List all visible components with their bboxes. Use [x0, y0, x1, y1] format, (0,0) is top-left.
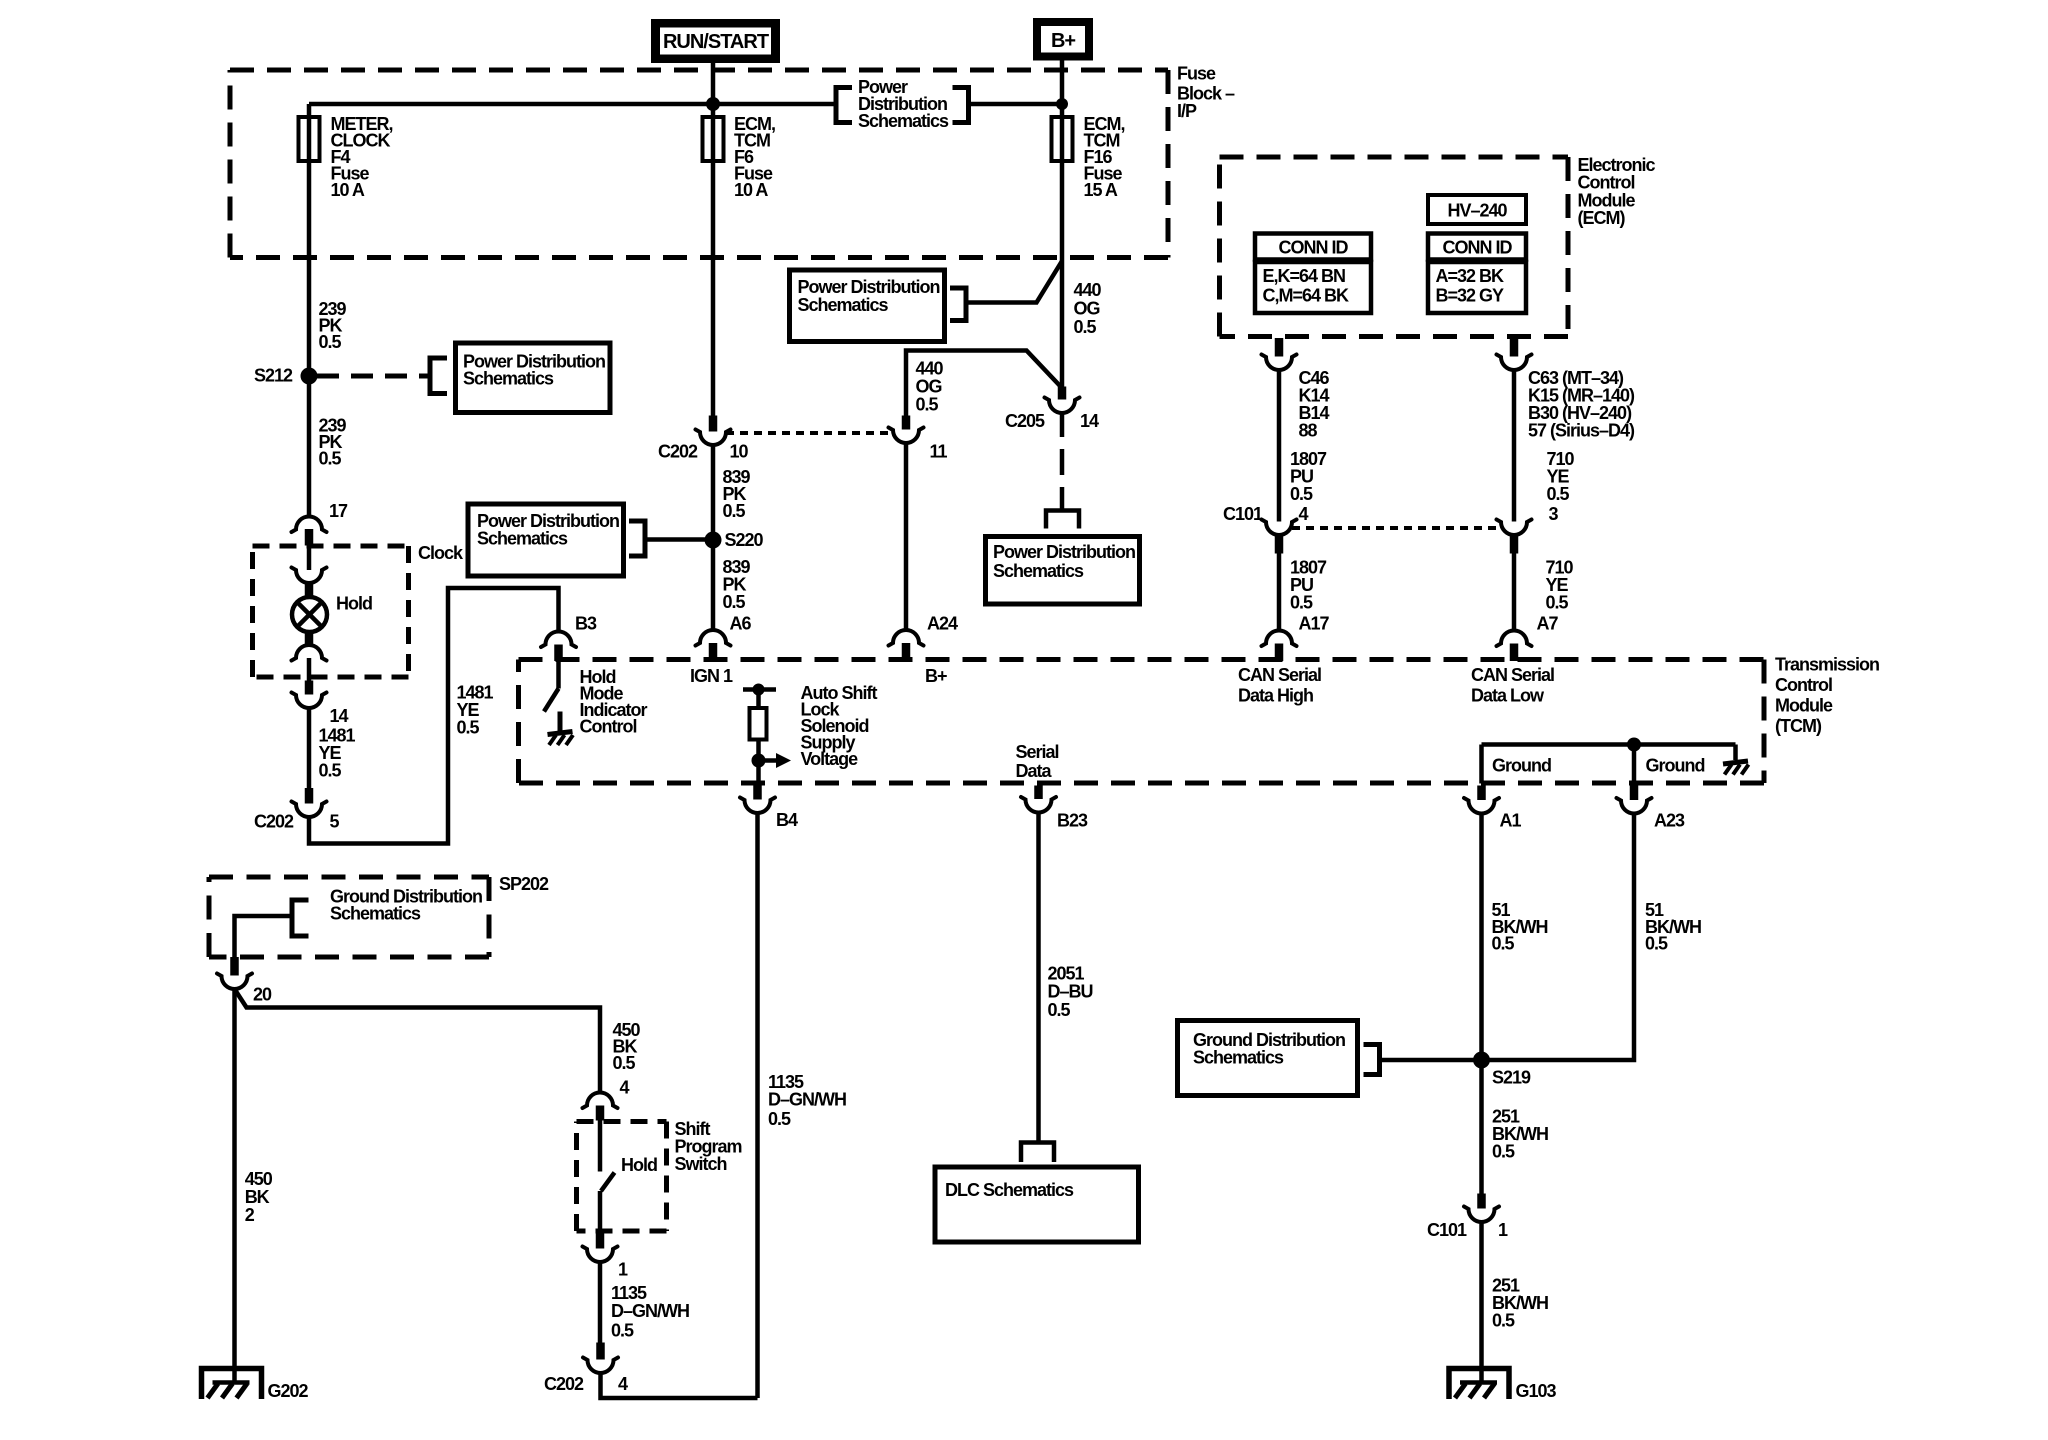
connector C101 pin 4 [1223, 504, 1309, 554]
wire label 239 PK 0.5 (below S212) [319, 416, 347, 469]
wire label 239 PK 0.5 (above S212) [319, 299, 347, 352]
svg-text:0.5: 0.5 [611, 1321, 634, 1341]
svg-text:Hold: Hold [621, 1155, 657, 1175]
lamp Hold indicator [292, 594, 372, 633]
svg-text:S212: S212 [254, 366, 293, 386]
svg-text:1: 1 [618, 1260, 628, 1280]
connector clock lamp top [292, 568, 327, 598]
svg-text:0.5: 0.5 [457, 718, 480, 738]
wire label 450 BK 0.5 [613, 1020, 641, 1073]
node S212 [254, 366, 318, 386]
svg-text:0.5: 0.5 [1492, 1142, 1515, 1162]
svg-text:Switch: Switch [675, 1154, 727, 1174]
power symbol B+ [1033, 18, 1093, 61]
svg-text:C205: C205 [1005, 411, 1045, 431]
svg-text:57 (Sirius–D4): 57 (Sirius–D4) [1528, 421, 1635, 441]
wire 14 to C202-5 [307, 708, 312, 788]
fuse block I/P dashed box [230, 70, 1168, 258]
svg-text:0.5: 0.5 [1492, 934, 1515, 954]
connector pin A23 [1617, 786, 1686, 831]
pin label Hold Mode Indicator Control [580, 667, 648, 737]
svg-text:14: 14 [1080, 411, 1099, 431]
clock dashed box [253, 546, 409, 677]
wire B23 serial data [1036, 813, 1041, 1143]
svg-text:Schematics: Schematics [477, 529, 568, 549]
svg-text:(TCM): (TCM) [1775, 716, 1822, 736]
connector ECM pin C46 [1262, 338, 1297, 370]
table CONN ID left [1255, 234, 1371, 314]
svg-text:OG: OG [1074, 299, 1100, 319]
power symbol RUN/START [651, 19, 780, 63]
svg-text:10 A: 10 A [331, 180, 365, 200]
TCM internal ground bus [1482, 738, 1736, 784]
box Power Distribution Schematics (C205) [986, 537, 1140, 605]
svg-text:0.5: 0.5 [1048, 1000, 1071, 1020]
connector clock lamp bottom [292, 632, 327, 661]
svg-text:Power Distribution: Power Distribution [993, 542, 1135, 562]
svg-text:C101: C101 [1223, 504, 1263, 524]
svg-text:0.5: 0.5 [1492, 1311, 1515, 1331]
wire label 1481 YE 0.5 (B3 leg) [457, 683, 494, 738]
wire label 1807 PU 0.5 (lower) [1290, 558, 1327, 613]
table CONN ID right [1428, 234, 1526, 314]
connector pin 1 (shift switch) [583, 1233, 629, 1280]
svg-text:CONN ID: CONN ID [1443, 238, 1513, 258]
svg-text:Data: Data [1016, 761, 1053, 781]
svg-text:A17: A17 [1299, 614, 1330, 634]
svg-text:G202: G202 [268, 1381, 309, 1401]
wire C202-4 to B4 wire [601, 1373, 758, 1398]
box DLC Schematics [935, 1167, 1139, 1242]
label Electronic Control Module (ECM) [1578, 155, 1656, 228]
wire bracket to S220 [645, 537, 705, 542]
svg-text:0.5: 0.5 [319, 332, 342, 352]
wire C205 dashed drop [1060, 413, 1065, 437]
svg-text:S219: S219 [1492, 1068, 1531, 1088]
svg-text:E,K=64 BN: E,K=64 BN [1263, 266, 1346, 286]
wire label 440 OG 0.5 (11 leg) [916, 359, 944, 415]
node junction at B+ bus [1056, 98, 1068, 110]
wire 11 to A24 [904, 443, 909, 631]
wire C202-5 to B3 (1481 YE) [309, 588, 559, 844]
pin label CAN Serial Data Low [1471, 665, 1554, 706]
node S219 [1473, 1052, 1531, 1088]
ground hold mode control [548, 712, 574, 746]
connector pin 4 (shift switch) [583, 1078, 630, 1121]
connector C205 pin 14 [1005, 387, 1099, 432]
svg-text:CAN Serial: CAN Serial [1471, 665, 1554, 685]
svg-text:1135: 1135 [611, 1283, 647, 1303]
svg-text:440: 440 [1074, 280, 1102, 300]
svg-text:3: 3 [1549, 504, 1559, 524]
connector pin B23 [1021, 786, 1088, 831]
svg-text:C202: C202 [254, 812, 294, 832]
module ECM dashed box [1220, 157, 1569, 337]
wire label 51 BK/WH 0.5 (A1) [1492, 900, 1548, 954]
svg-text:A1: A1 [1500, 811, 1522, 831]
ground G103 [1449, 1369, 1557, 1402]
node S220 [705, 530, 764, 550]
wire 20 branch to shift switch [235, 989, 601, 1093]
off-page connector Power Distribution Schematics (S220) [468, 504, 645, 576]
wire bracket to S219 [1380, 1058, 1482, 1063]
wire C101-4 to A17 [1277, 554, 1282, 631]
wire top bus right [969, 102, 1063, 107]
svg-text:5: 5 [330, 812, 340, 832]
connector pin A7 [1497, 614, 1559, 662]
svg-text:B=32 GY: B=32 GY [1436, 286, 1505, 306]
svg-text:B3: B3 [575, 614, 597, 634]
connector C202 pin 5 [254, 788, 340, 832]
svg-text:Control: Control [580, 717, 637, 737]
svg-text:A24: A24 [927, 614, 958, 634]
svg-text:10: 10 [730, 442, 749, 462]
connector pin 14 (clock) [292, 681, 349, 727]
svg-text:D–BU: D–BU [1048, 982, 1093, 1002]
wire label 1481 YE 0.5 (clock to C202) [319, 726, 356, 781]
connector pin A6 [696, 614, 752, 661]
wire ECM TCM F16 fuse column / B+ column [1060, 104, 1065, 387]
connector pin 17 (clock) [292, 501, 349, 546]
svg-text:14: 14 [330, 706, 349, 726]
svg-text:S220: S220 [725, 530, 764, 550]
wire B+ drop [1060, 61, 1065, 105]
svg-text:Hold: Hold [336, 594, 372, 614]
svg-text:IGN 1: IGN 1 [690, 666, 733, 686]
fuse F16 [1052, 114, 1125, 200]
connector pin A24 [889, 614, 959, 661]
svg-text:0.5: 0.5 [1547, 484, 1570, 504]
module TCM dashed box [519, 660, 1765, 784]
svg-text:Schematics: Schematics [463, 369, 554, 389]
connector C202 pin 10 [658, 416, 749, 462]
svg-text:0.5: 0.5 [1290, 593, 1313, 613]
wire dotted C101 4 to 3 [1292, 526, 1501, 530]
pin label CAN Serial Data High [1238, 665, 1321, 706]
switch shift program dashed box [577, 1122, 667, 1232]
svg-text:0.5: 0.5 [916, 395, 939, 415]
label Fuse Block - I/P [1177, 64, 1235, 122]
wire label 450 BK 2 [245, 1169, 273, 1225]
wire label 1135 D-GN/WH 0.5 (B4) [768, 1072, 846, 1129]
svg-text:Fuse: Fuse [1177, 64, 1216, 84]
wire label 1135 D-GN/WH 0.5 (switch) [611, 1283, 689, 1341]
svg-text:Module: Module [1775, 696, 1833, 716]
svg-text:Control: Control [1775, 675, 1832, 695]
svg-text:4: 4 [1299, 504, 1309, 524]
svg-text:88: 88 [1299, 421, 1318, 441]
svg-text:A7: A7 [1537, 614, 1559, 634]
wire label 251 BK/WH 0.5 (lower) [1492, 1276, 1548, 1331]
svg-text:Ground: Ground [1646, 756, 1705, 776]
svg-text:C101: C101 [1427, 1220, 1467, 1240]
svg-text:I/P: I/P [1177, 101, 1197, 121]
ground TCM internal chassis [1723, 761, 1748, 764]
wire label 710 YE 0.5 (upper) [1547, 449, 1575, 504]
svg-text:G103: G103 [1516, 1381, 1557, 1401]
svg-text:Voltage: Voltage [801, 749, 859, 769]
wire C202-10 to A6 [711, 445, 716, 631]
svg-text:Control: Control [1578, 173, 1635, 193]
wire dotted C202-10 to 11 [726, 431, 893, 435]
svg-text:Ground: Ground [1492, 756, 1551, 776]
wire 440 OG horizontal to connector 11 [906, 351, 1062, 416]
svg-text:C,M=64 BK: C,M=64 BK [1263, 286, 1350, 306]
svg-text:Serial: Serial [1016, 742, 1059, 762]
label Transmission Control Module (TCM) [1775, 655, 1879, 737]
wire label 1807 PU 0.5 (upper) [1290, 449, 1327, 504]
svg-text:BK: BK [245, 1187, 270, 1207]
wire RUN/START drop [711, 63, 716, 104]
svg-text:440: 440 [916, 359, 944, 379]
fuse F4 [299, 114, 393, 200]
wire label 51 BK/WH 0.5 (A23) [1645, 900, 1701, 954]
svg-text:Data Low: Data Low [1471, 686, 1545, 706]
wire label 440 OG 0.5 (B+ leg) [1074, 280, 1102, 337]
wire C101-3 to A7 [1512, 554, 1517, 631]
wire top bus left [309, 102, 836, 107]
svg-text:0.5: 0.5 [613, 1053, 636, 1073]
svg-text:11: 11 [930, 442, 948, 462]
wire 20 to G202 450 BK 2 [232, 989, 237, 1383]
svg-text:0.5: 0.5 [768, 1109, 791, 1129]
switch hold contact [600, 1121, 657, 1234]
svg-text:A=32 BK: A=32 BK [1436, 266, 1505, 286]
wire label 839 PK 0.5 (below S220) [723, 557, 751, 612]
svg-text:0.5: 0.5 [723, 592, 746, 612]
svg-text:Transmission: Transmission [1775, 655, 1879, 675]
pin label Serial Data [1016, 742, 1059, 781]
svg-text:D–GN/WH: D–GN/WH [611, 1301, 689, 1321]
off-page connector Power Distribution Schematics (S212) [430, 343, 610, 413]
svg-text:B4: B4 [776, 810, 798, 830]
svg-text:0.5: 0.5 [319, 449, 342, 469]
svg-text:20: 20 [253, 985, 272, 1005]
wire clock internal bottom [307, 658, 312, 681]
wire ECM TCM F6 fuse column [711, 104, 716, 416]
connector C101 pin 1 [1427, 1194, 1508, 1241]
svg-text:2: 2 [245, 1205, 255, 1225]
connector pin 11 [889, 416, 948, 462]
svg-text:15 A: 15 A [1084, 180, 1118, 200]
svg-text:0.5: 0.5 [319, 761, 342, 781]
wire clock internal top [307, 546, 312, 571]
connect-to fork (DLC) [1021, 1143, 1054, 1163]
connector pin A17 [1262, 614, 1330, 662]
wire pin1 to C202-4 [598, 1262, 603, 1343]
svg-text:CONN ID: CONN ID [1279, 238, 1349, 258]
node junction at RUN/START bus [706, 97, 720, 111]
wire label 839 PK 0.5 (above S220) [723, 467, 751, 521]
splice SP202 dashed box [209, 877, 489, 957]
svg-text:A23: A23 [1654, 811, 1685, 831]
wire B4 1135 D-GN/WH [755, 813, 760, 1398]
svg-text:Data High: Data High [1238, 686, 1313, 706]
off-page connector Power Distribution Schematics (top) [836, 77, 969, 131]
wire C63 to C101-3 [1512, 370, 1517, 522]
pin list C63 K15 B30 57 [1528, 368, 1635, 441]
wire A1 to S219 to C101-1 [1479, 814, 1484, 1194]
svg-text:A6: A6 [730, 614, 752, 634]
svg-text:0.5: 0.5 [1645, 934, 1668, 954]
svg-text:Schematics: Schematics [330, 904, 421, 924]
svg-text:D–GN/WH: D–GN/WH [768, 1090, 846, 1110]
svg-text:Clock: Clock [418, 543, 464, 563]
solenoid auto shift lock supply [743, 684, 791, 787]
wire dashed S212 to power distribution [317, 374, 430, 379]
wire label 710 YE 0.5 (lower) [1546, 558, 1574, 613]
svg-text:RUN/START: RUN/START [663, 31, 769, 53]
svg-text:1: 1 [1498, 1220, 1508, 1240]
fuse F6 [703, 114, 776, 200]
pin list C46 K14 B14 88 [1299, 368, 1330, 441]
svg-text:10 A: 10 A [734, 180, 768, 200]
svg-text:Schematics: Schematics [1193, 1048, 1284, 1068]
ground G202 [202, 1369, 309, 1402]
off-page connector Power Distribution Schematics (440 OG) [790, 270, 967, 342]
svg-text:C202: C202 [658, 442, 698, 462]
wire METER CLOCK fuse column [307, 104, 312, 516]
label Auto Shift Lock Solenoid Supply Voltage [801, 683, 878, 769]
svg-text:4: 4 [618, 1374, 628, 1394]
wire label 251 BK/WH 0.5 (upper) [1492, 1107, 1548, 1162]
svg-text:0.5: 0.5 [1074, 317, 1097, 337]
svg-text:0.5: 0.5 [1546, 593, 1569, 613]
svg-text:Schematics: Schematics [858, 111, 949, 131]
svg-text:B23: B23 [1057, 811, 1088, 831]
svg-text:DLC Schematics: DLC Schematics [945, 1180, 1074, 1200]
off-page connector Ground Distribution Schematics (S219) [1178, 1021, 1380, 1096]
svg-text:0.5: 0.5 [723, 501, 746, 521]
svg-text:OG: OG [916, 377, 942, 397]
svg-text:0.5: 0.5 [1290, 484, 1313, 504]
svg-text:2051: 2051 [1048, 964, 1085, 984]
connector C101 pin 3 [1497, 504, 1559, 554]
svg-text:C202: C202 [544, 1374, 584, 1394]
connector pin 20 [217, 957, 272, 1005]
wire SP202 internal [235, 916, 293, 957]
wire C46 to C101-4 [1277, 370, 1282, 522]
svg-text:B+: B+ [925, 666, 947, 686]
svg-text:4: 4 [620, 1078, 630, 1098]
svg-text:(ECM): (ECM) [1578, 208, 1626, 228]
connector C202 pin 4 [544, 1343, 628, 1395]
svg-text:Schematics: Schematics [993, 561, 1084, 581]
box HV-240 [1428, 195, 1526, 224]
connector ECM pin C63 [1497, 338, 1532, 370]
wire 440 OG diagonal to power distribution [969, 261, 1063, 303]
svg-text:17: 17 [329, 501, 348, 521]
svg-text:450: 450 [245, 1169, 273, 1189]
svg-text:B+: B+ [1051, 30, 1075, 52]
connector pin A1 [1464, 786, 1521, 831]
svg-text:SP202: SP202 [499, 874, 549, 894]
svg-text:CAN Serial: CAN Serial [1238, 665, 1321, 685]
connector pin B3 [541, 614, 597, 662]
wire A23 to S219 bus [1482, 814, 1635, 1061]
wire C101-1 to G103 [1479, 1222, 1484, 1383]
off-page connector Ground Distribution Schematics (SP202) [292, 887, 482, 937]
svg-text:Power Distribution: Power Distribution [798, 277, 940, 297]
svg-text:Schematics: Schematics [798, 295, 889, 315]
connector pin B4 [740, 786, 798, 831]
wire label 2051 D-BU 0.5 [1048, 964, 1093, 1021]
connect-to fork (C205) [1046, 511, 1079, 529]
label Shift Program Switch [675, 1119, 742, 1174]
switch hold mode indicator [544, 661, 559, 712]
svg-text:HV–240: HV–240 [1447, 201, 1507, 221]
